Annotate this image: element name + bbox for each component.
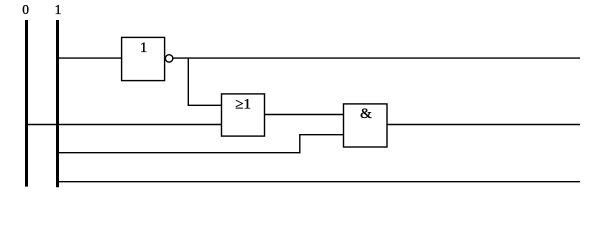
bus rail 1 (56, 20, 59, 187)
AND gate U3 body (344, 104, 388, 147)
svg-text:1: 1 (55, 2, 62, 17)
wire OR output to AND input A (265, 114, 344, 116)
wire bus1 to NOT input (58, 57, 123, 59)
OR gate U2 body (222, 94, 265, 136)
wire jog horizontal to AND input B (299, 134, 343, 136)
wire jog vertical up (299, 135, 301, 154)
wire branch horizontal to OR input A (188, 104, 222, 106)
wire bus1 bottom to right edge (58, 181, 581, 183)
svg-text:≥1: ≥1 (235, 96, 251, 112)
wire AND output to right edge (387, 124, 580, 126)
wire branch vertical from NOT output down (187, 58, 189, 105)
svg-text:&: & (360, 106, 372, 122)
wire NOT output to right edge (173, 57, 580, 59)
wire bus0 to OR input B (27, 124, 222, 126)
svg-text:0: 0 (22, 2, 29, 17)
bus rail 0 (25, 20, 28, 187)
NOT gate U1 output bubble (165, 55, 173, 63)
NOT gate U1 body (122, 37, 165, 80)
svg-text:1: 1 (140, 40, 148, 56)
wire bus1 lower horizontal (58, 152, 300, 154)
